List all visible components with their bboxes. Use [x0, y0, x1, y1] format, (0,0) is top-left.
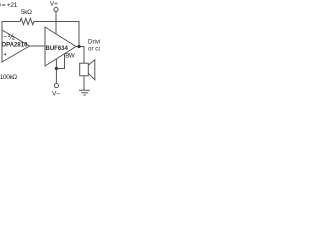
- svg-text:V−: V−: [52, 90, 60, 97]
- svg-text:+: +: [3, 51, 7, 58]
- svg-text:100kΩ: 100kΩ: [0, 74, 17, 81]
- svg-text:Driving: Driving: [88, 39, 100, 46]
- svg-text:V+: V+: [50, 1, 58, 8]
- svg-text:or cable: or cable: [88, 46, 100, 53]
- svg-text:OPA2810: OPA2810: [2, 43, 29, 49]
- svg-text:5kΩ: 5kΩ: [21, 9, 32, 16]
- svg-text:BUF634: BUF634: [46, 46, 69, 52]
- svg-text:= +21: = +21: [2, 2, 18, 9]
- svg-text:−: −: [3, 33, 7, 40]
- svg-text:BW: BW: [65, 53, 75, 60]
- svg-text:½: ½: [8, 32, 15, 42]
